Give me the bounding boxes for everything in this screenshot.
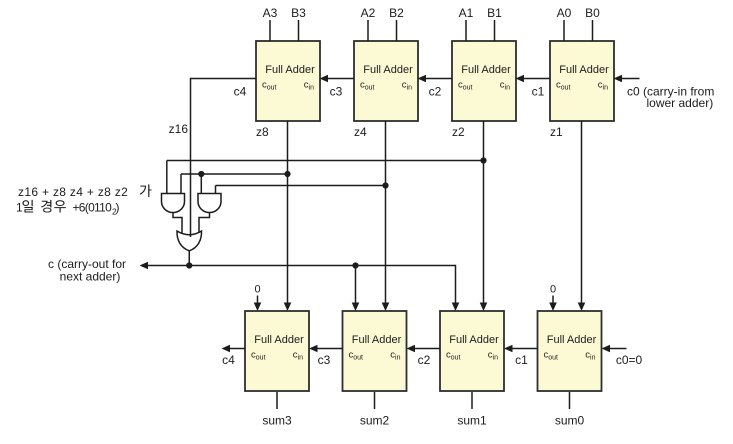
full adder U6: [343, 311, 407, 391]
svg-text:sum1: sum1: [457, 414, 487, 428]
OR gate G3: [177, 231, 202, 251]
wire B2 input: [396, 20, 398, 41]
svg-text:B1: B1: [487, 6, 502, 20]
label c4: [234, 85, 247, 99]
label z16: [169, 122, 189, 136]
wire G2 output to OR: [199, 213, 210, 234]
svg-text:z4: z4: [354, 125, 367, 139]
svg-text:B2: B2: [389, 6, 404, 20]
full adder U3: [256, 41, 320, 121]
wire c0 carry-in with arrow into U0: [614, 75, 640, 83]
full adder U5: [440, 311, 504, 391]
wire c4 output arrow: [222, 345, 246, 353]
svg-text:1: 1: [16, 201, 23, 215]
label c2 bottom: [418, 353, 431, 367]
junction z2 rail: [480, 157, 486, 163]
svg-text:z8: z8: [256, 125, 269, 139]
svg-text:B3: B3: [291, 6, 306, 20]
svg-text:A3: A3: [263, 6, 278, 20]
svg-text:B0: B0: [585, 6, 600, 20]
node B1: [487, 6, 502, 20]
full adder U7: [245, 311, 309, 391]
wire 0 input sum3: [254, 296, 262, 312]
junction carry to sum2: [352, 262, 358, 268]
svg-text:Full Adder: Full Adder: [449, 334, 499, 346]
wire c2: [418, 75, 453, 83]
wire z2 column: [480, 121, 488, 311]
svg-text:z1: z1: [550, 125, 563, 139]
label c1: [532, 85, 545, 99]
svg-text:c1: c1: [515, 353, 528, 367]
label z4: [354, 125, 367, 139]
svg-text:lower adder): lower adder): [647, 96, 714, 110]
node B2: [389, 6, 404, 20]
full adder U0: [550, 41, 614, 121]
wire z8 column: [284, 121, 292, 311]
svg-text:sum3: sum3: [262, 414, 292, 428]
wire G1 output to OR: [173, 213, 182, 234]
wire A1 input: [465, 20, 467, 41]
label c1 bottom: [515, 353, 528, 367]
svg-text:0: 0: [254, 284, 260, 296]
wire sum3 output: [276, 392, 278, 409]
full adder U4: [538, 311, 602, 391]
svg-text:z16: z16: [169, 122, 189, 136]
svg-text:A1: A1: [459, 6, 474, 20]
svg-text:c2: c2: [429, 85, 442, 99]
svg-text:sum0: sum0: [555, 414, 585, 428]
svg-text:Full Adder: Full Adder: [265, 64, 315, 76]
wire c4 / z16 elbow: [191, 78, 257, 237]
wire c1 bottom: [504, 345, 538, 353]
svg-text:Full Adder: Full Adder: [352, 334, 402, 346]
junction z4 rail: [382, 182, 388, 188]
wire z4 rail to AND2: [216, 186, 386, 195]
wire 0 input sum0: [549, 296, 557, 312]
wire OR output: [188, 251, 190, 266]
svg-text:Full Adder: Full Adder: [363, 64, 413, 76]
svg-text:Full Adder: Full Adder: [461, 64, 511, 76]
svg-text:Full Adder: Full Adder: [559, 64, 609, 76]
label c0=0: [616, 353, 643, 367]
wire c1: [516, 75, 551, 83]
wire z4 column: [382, 121, 390, 311]
wire carry elbow to sum1 adder: [452, 265, 460, 311]
full adder U1: [452, 41, 516, 121]
node A3: [263, 6, 278, 20]
label sum2: [360, 414, 390, 428]
label z8: [256, 125, 269, 139]
label sum0: [555, 414, 585, 428]
junction z8 rail at column: [284, 171, 290, 177]
svg-text:c0=0: c0=0: [616, 353, 643, 367]
wire c0=0 input: [602, 345, 627, 353]
svg-text:c1: c1: [532, 85, 545, 99]
AND gate G2 (z8·z4): [198, 194, 221, 213]
label c2: [429, 85, 442, 99]
wire c carry-out horizontal: [140, 262, 456, 270]
label c (carry-out for next adder): [48, 257, 126, 284]
wire z2 rail to AND1: [167, 161, 484, 195]
full adder U2: [354, 41, 418, 121]
wire carry drop to sum2 adder: [352, 266, 360, 312]
wire B0 input: [592, 20, 594, 41]
label sum3: [262, 414, 292, 428]
label c4 bottom: [222, 353, 235, 367]
svg-text:0: 0: [550, 284, 556, 296]
svg-text:A0: A0: [557, 6, 572, 20]
label sum1: [457, 414, 487, 428]
AND gate G1 (z8·z2): [162, 194, 185, 213]
svg-text:sum2: sum2: [360, 414, 390, 428]
label z2: [452, 125, 465, 139]
label c3 bottom: [318, 353, 331, 367]
svg-text:z16 + z8 z4 + z8 z2: z16 + z8 z4 + z8 z2: [18, 185, 128, 199]
wire A3 input: [269, 20, 271, 41]
label condition line2: 1일 경우 +6(0110_2): [16, 200, 120, 217]
label c3: [330, 85, 343, 99]
label 0 input sum3: [254, 284, 260, 296]
label z1: [550, 125, 563, 139]
junction OR output on carry line: [186, 262, 192, 268]
svg-text:c3: c3: [330, 85, 343, 99]
wire A2 input: [367, 20, 369, 41]
wire z8 rail: [181, 174, 288, 194]
junction z8 rail tap to AND2: [198, 171, 204, 177]
svg-text:c4: c4: [222, 353, 235, 367]
node A2: [361, 6, 376, 20]
wire B3 input: [298, 20, 300, 41]
label 0 input sum0: [550, 284, 556, 296]
svg-text:z2: z2: [452, 125, 465, 139]
svg-text:Full Adder: Full Adder: [254, 334, 304, 346]
svg-text:): ): [116, 201, 120, 215]
label z16 + z8 z4 + z8 z2 condition line1: [18, 184, 152, 199]
node B3: [291, 6, 306, 20]
node B0: [585, 6, 600, 20]
svg-text:A2: A2: [361, 6, 376, 20]
label c0 (carry-in from lower adder): [627, 85, 714, 111]
wire z1 column: [578, 121, 586, 311]
wire sum1 output: [471, 392, 473, 409]
svg-text:c3: c3: [318, 353, 331, 367]
svg-text:c4: c4: [234, 85, 247, 99]
wire c3: [320, 75, 355, 83]
node A1: [459, 6, 474, 20]
node A0: [557, 6, 572, 20]
svg-text:Full Adder: Full Adder: [547, 334, 597, 346]
wire sum0 output: [569, 392, 571, 409]
svg-text:c2: c2: [418, 353, 431, 367]
wire A0 input: [563, 20, 565, 41]
wire sum2 output: [374, 392, 376, 409]
wire c2 bottom: [407, 345, 441, 353]
wire B1 input: [494, 20, 496, 41]
wire c3 bottom: [309, 345, 343, 353]
svg-text:next adder): next adder): [60, 270, 121, 284]
svg-text:+6(0110: +6(0110: [73, 201, 113, 215]
